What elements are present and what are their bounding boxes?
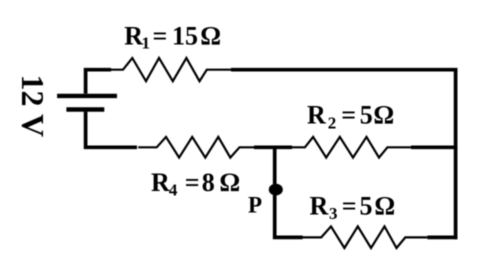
wire bottom right: [427, 236, 457, 240]
svg-text:Ω: Ω: [219, 168, 240, 197]
resistor R3: [301, 226, 427, 248]
node P dot: [269, 184, 283, 196]
svg-text:Ω: Ω: [373, 100, 394, 129]
svg-text:R: R: [307, 100, 326, 129]
svg-text:4: 4: [169, 181, 178, 200]
label R1 = 15 ohm: [124, 21, 221, 52]
resistor R4: [138, 137, 254, 158]
label R2 = 5 ohm: [307, 100, 394, 132]
node junction bar: [254, 145, 292, 149]
svg-text:R: R: [151, 168, 170, 197]
wire top-left corner from battery positive up and right: [86, 70, 111, 94]
svg-text:Ω: Ω: [374, 192, 395, 221]
label R3 = 5 ohm: [310, 192, 396, 224]
resistor R1: [111, 58, 231, 81]
wire right vertical: [454, 68, 458, 239]
svg-text:Ω: Ω: [200, 21, 221, 50]
label R4 = 8 ohm: [151, 168, 240, 200]
svg-text:R: R: [124, 21, 143, 50]
svg-text:1: 1: [142, 33, 151, 52]
svg-text:=: =: [185, 168, 200, 197]
svg-text:8: 8: [202, 168, 215, 197]
svg-text:2: 2: [328, 113, 337, 132]
svg-text:=: =: [341, 100, 356, 129]
svg-text:=: =: [153, 21, 168, 50]
resistor R2: [292, 137, 411, 158]
svg-text:R: R: [310, 192, 329, 221]
wire battery negative down and right: [86, 112, 137, 148]
svg-text:=: =: [342, 192, 357, 221]
wire top right: [231, 68, 457, 72]
svg-text:5: 5: [360, 100, 373, 129]
svg-text:5: 5: [360, 192, 373, 221]
svg-text:3: 3: [329, 204, 338, 223]
svg-text:12 V: 12 V: [15, 75, 51, 138]
battery U1 short plate (-): [66, 107, 104, 111]
svg-text:15: 15: [172, 21, 198, 50]
svg-text:P: P: [248, 193, 262, 218]
wire node down to bottom and right: [275, 146, 303, 238]
battery U1 long plate (+): [57, 94, 117, 98]
wire middle right: [411, 145, 457, 149]
